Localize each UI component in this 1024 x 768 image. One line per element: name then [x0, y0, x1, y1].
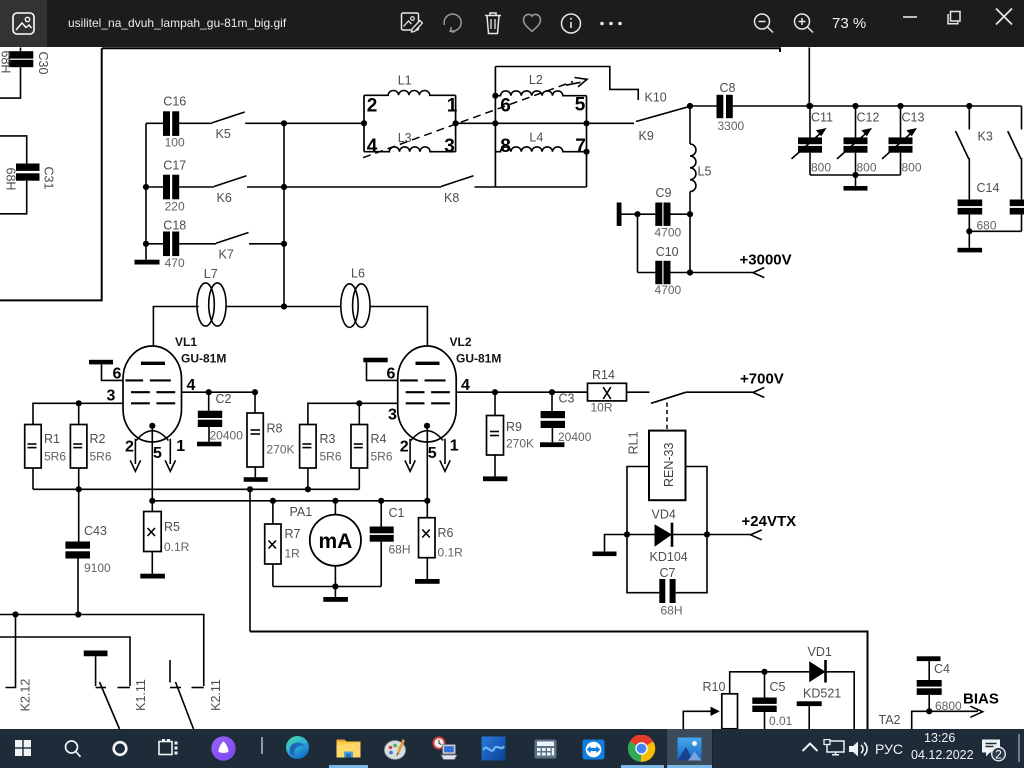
node rail center: [852, 172, 858, 178]
svg-text:C2: C2: [216, 392, 232, 406]
VL2 anode bar: [416, 362, 440, 365]
svg-text:4: 4: [367, 136, 378, 157]
svg-text:270K: 270K: [267, 443, 295, 457]
svg-text:5R6: 5R6: [90, 450, 112, 464]
switch K5: [212, 112, 245, 141]
svg-text:VD4: VD4: [652, 508, 676, 522]
VL1 heater arrow pin 2: [125, 439, 141, 472]
node C10 right: [687, 269, 693, 275]
svg-text:C7: C7: [660, 566, 676, 580]
resistor R2: [70, 403, 111, 489]
svg-text:C43: C43: [84, 524, 107, 538]
VL1 pin 4 wire (screen grid): [181, 377, 255, 394]
capacitor C7: [659, 566, 682, 618]
svg-text:C12: C12: [857, 111, 880, 125]
svg-text:100: 100: [165, 136, 185, 150]
node R9 junction: [492, 389, 498, 395]
svg-text:GU-81M: GU-81M: [456, 352, 501, 366]
pin 6 of L2 box: [500, 96, 511, 117]
variable capacitor C12: [837, 106, 879, 175]
terminal bar under VD1: [797, 701, 822, 729]
diode VD4 KD104: [627, 508, 707, 565]
svg-text:C30: C30: [36, 52, 50, 75]
node R4 top junction: [356, 400, 362, 406]
svg-text:K7: K7: [219, 248, 234, 262]
svg-text:20400: 20400: [210, 429, 244, 443]
wire y=637 to K1.11: [0, 637, 130, 686]
svg-text:3300: 3300: [718, 119, 745, 133]
svg-text:REN-33: REN-33: [662, 443, 676, 488]
capacitor C2: [198, 392, 243, 443]
ground under R9: [483, 455, 507, 481]
svg-text:+3000V: +3000V: [740, 252, 792, 269]
node C9 right / L5 bottom: [687, 211, 693, 217]
svg-text:C13: C13: [902, 111, 925, 125]
node rail R3: [305, 486, 311, 492]
inductor box L1/L3: [364, 91, 456, 152]
switch K9: [636, 106, 690, 143]
relay contact K1.11: [84, 651, 148, 730]
resistor R3: [300, 425, 342, 490]
svg-text:10R: 10R: [591, 401, 613, 415]
relay contact K2.12: [6, 615, 33, 712]
svg-text:C9: C9: [656, 186, 672, 200]
VL1 heater arrow pin 1: [165, 438, 185, 471]
node L2 box left mid: [492, 120, 498, 126]
svg-text:6: 6: [113, 366, 122, 383]
resistor R4: [351, 403, 393, 489]
R10 wiper arrow: [711, 707, 720, 716]
pin 7 of L2 box: [575, 136, 586, 157]
node C4 bottom / BIAS wire: [926, 708, 932, 714]
svg-text:VD1: VD1: [808, 645, 832, 659]
capacitor C18: [146, 219, 186, 271]
svg-text:K10: K10: [645, 91, 667, 105]
wire R14 to switch: [627, 391, 650, 393]
node bus285 K6 row: [281, 184, 287, 190]
inductor box L2/L4: [495, 67, 586, 188]
VL2 pin 6 terminal: [363, 358, 398, 383]
variable capacitor C13: [882, 106, 924, 175]
svg-text:C1: C1: [389, 506, 405, 520]
ground left of VD4: [593, 535, 628, 557]
svg-text:20400: 20400: [558, 430, 592, 444]
wire L5/C9 node down to C10 node: [689, 214, 691, 272]
svg-text:C5: C5: [770, 680, 786, 694]
VL2 grid 2 dashes: [406, 391, 450, 393]
svg-text:R2: R2: [90, 432, 106, 446]
svg-text:2: 2: [400, 439, 409, 456]
ground under PA1: [323, 587, 348, 602]
VL1 anode bar: [141, 362, 165, 365]
wire VD1 down right: [826, 672, 855, 729]
wire C8 to HV bus: [733, 105, 1022, 107]
svg-text:PA1: PA1: [290, 505, 313, 519]
ground under C2: [197, 427, 221, 446]
pin 3 of L1 box: [444, 136, 455, 157]
node junction C17 bus: [143, 184, 149, 190]
vertical bus wire x=146 (input cap bank): [145, 123, 147, 244]
capacitor C4 with top terminal: [917, 656, 962, 713]
svg-text:R4: R4: [371, 432, 387, 446]
node HV bus top feed: [806, 103, 812, 109]
svg-text:4700: 4700: [655, 283, 682, 297]
svg-text:68H: 68H: [389, 543, 411, 557]
VL2 cathode lead down: [426, 426, 428, 501]
switch K7: [216, 233, 249, 262]
wire L7 to bus285: [226, 306, 284, 308]
svg-text:RL1: RL1: [626, 431, 640, 454]
svg-text:GU-81M: GU-81M: [181, 352, 226, 366]
VL1 cathode dome: [136, 431, 168, 441]
resistor R9: [487, 392, 535, 455]
node rail R2: [76, 486, 82, 492]
VL1 pin 3 wire (control grid): [33, 388, 123, 425]
VL1 pin 5 label: [153, 445, 162, 462]
wire to R10 wiper: [683, 711, 711, 729]
capacitor C5: [752, 672, 792, 729]
wire C18 to K7: [179, 243, 216, 245]
svg-text:3: 3: [107, 388, 116, 405]
VL1 label: [175, 335, 226, 366]
svg-text:L1: L1: [398, 74, 412, 88]
node VD4 left: [624, 531, 630, 537]
cathode rail y=501: [152, 500, 427, 502]
svg-text:L4: L4: [529, 131, 543, 145]
pin 8 of L2 box: [500, 136, 511, 157]
VL2 grid 3 dashes: [406, 402, 450, 404]
wire K5 to bus: [245, 122, 284, 124]
node L2 box right mid: [583, 120, 589, 126]
wire K6 to K8: [247, 186, 441, 188]
svg-text:3: 3: [444, 136, 455, 157]
svg-text:K3: K3: [978, 130, 993, 144]
wire C16 to K5: [179, 122, 212, 124]
node bus285 anode row: [281, 303, 287, 309]
svg-text:+700V: +700V: [740, 371, 784, 388]
node bias rail K2.12: [12, 611, 18, 617]
svg-text:5: 5: [153, 445, 162, 462]
ammeter PA1: [290, 501, 362, 587]
VL2 heater arrow pin 2: [400, 439, 416, 472]
node VD4 right: [704, 531, 710, 537]
svg-text:KD521: KD521: [803, 687, 841, 701]
svg-text:9100: 9100: [84, 561, 111, 575]
svg-text:C14: C14: [977, 181, 1000, 195]
node L1 box right: [453, 120, 459, 126]
lower sub-circuit box frame: [250, 632, 868, 730]
svg-text:5R6: 5R6: [320, 450, 342, 464]
wire C17 to K6: [179, 186, 214, 188]
ground under C3: [540, 428, 564, 447]
svg-text:C8: C8: [720, 81, 736, 95]
ground under C11-C13 rail: [844, 175, 868, 191]
node cathode rail PA1: [332, 498, 338, 504]
node C3 junction: [549, 389, 555, 395]
ground under R8: [244, 467, 268, 482]
svg-text:L2: L2: [529, 73, 543, 87]
RL1 label: [626, 431, 640, 454]
inductor L6: [341, 267, 370, 328]
inductor L7: [197, 267, 226, 326]
svg-text:C4: C4: [934, 662, 950, 676]
svg-text:C18: C18: [163, 219, 186, 233]
svg-text:K6: K6: [217, 191, 232, 205]
resistor R7: [265, 501, 301, 587]
svg-text:4: 4: [461, 377, 470, 394]
wire K8 to L2 box: [475, 186, 496, 188]
ground under C14: [958, 231, 983, 252]
node C11 bus: [807, 103, 813, 109]
capacitor C1: [370, 501, 411, 587]
svg-text:VL2: VL2: [450, 335, 472, 349]
bottom rail of C11-C13: [810, 174, 901, 176]
node PA1 bottom: [332, 583, 338, 589]
capacitor C3: [541, 392, 592, 445]
wire junction to C8: [690, 105, 717, 107]
RL1 loop wiring: [627, 467, 707, 593]
capacitor C10: [655, 245, 691, 297]
switch K8: [441, 176, 474, 205]
svg-text:4: 4: [187, 377, 196, 394]
node C9 left junction: [634, 211, 640, 217]
svg-text:5: 5: [428, 445, 437, 462]
VL2 cathode dome: [411, 431, 443, 441]
svg-text:4700: 4700: [655, 226, 682, 240]
svg-text:L5: L5: [698, 165, 712, 179]
pin 1 of L1 box: [447, 96, 458, 117]
svg-text:270K: 270K: [506, 437, 534, 451]
dashed gang line with arrow (variable inductor): [363, 78, 587, 158]
svg-text:8: 8: [500, 136, 511, 157]
VL1 pin 6 terminal: [89, 360, 124, 383]
svg-text:800: 800: [902, 161, 922, 175]
switch K3 (second contact): [1008, 106, 1022, 159]
svg-text:R14: R14: [592, 368, 615, 382]
svg-text:C17: C17: [163, 159, 186, 173]
svg-text:R3: R3: [320, 432, 336, 446]
svg-text:5R6: 5R6: [44, 450, 66, 464]
potentiometer R10: [703, 672, 765, 729]
wire pin5 to K9: [587, 122, 635, 124]
svg-text:800: 800: [857, 161, 877, 175]
svg-text:mA: mA: [318, 530, 352, 553]
svg-text:0.01: 0.01: [769, 714, 793, 728]
wire bus285 to L1 box: [284, 122, 364, 124]
bias rail wire y=614.5: [0, 615, 204, 687]
node C5 top: [761, 669, 767, 675]
PA1 bottom wire: [273, 586, 381, 588]
feedthrough terminal left of C9: [617, 203, 638, 226]
node bus285 K7 row: [281, 241, 287, 247]
wire C5 to VD1: [765, 671, 810, 673]
variable capacitor C11: [792, 106, 834, 175]
schematic border frame top line: [102, 48, 780, 52]
node K9 / C8 junction: [687, 103, 693, 109]
relay contact K2.11: [170, 660, 223, 729]
wire from top edge down to HV bus: [808, 48, 810, 107]
node cathode rail R6: [424, 498, 430, 504]
node cathode rail C1: [378, 498, 384, 504]
VL2 pin 4 wire (screen grid): [456, 377, 588, 394]
capacitor C31 (left edge fragment): [0, 136, 56, 214]
node C13 bus: [897, 103, 903, 109]
VL2 grid 1 dashes: [400, 379, 445, 381]
wire L1 box to L2 box: [456, 122, 496, 124]
svg-text:R9: R9: [506, 420, 522, 434]
vacuum tube VL2 GU-81M envelope: [398, 346, 457, 442]
svg-text:5R6: 5R6: [371, 450, 393, 464]
switch K10 label: [645, 91, 667, 105]
svg-text:K2.11: K2.11: [209, 679, 223, 711]
node VL1 cathode: [149, 423, 155, 429]
svg-text:5: 5: [575, 95, 586, 116]
ground under C18 bus: [135, 244, 160, 265]
svg-text:KD104: KD104: [650, 550, 688, 564]
transformer TA2 label: [879, 713, 901, 727]
svg-text:6: 6: [500, 96, 511, 117]
wire L7 to VL1 anode: [153, 307, 198, 362]
capacitor C30 (left edge fragment): [0, 48, 50, 99]
svg-text:800: 800: [811, 161, 831, 175]
+3000V feed arrow: [690, 252, 792, 278]
inductor label L4: [529, 131, 543, 145]
svg-text:C31: C31: [42, 167, 56, 190]
svg-text:2: 2: [125, 439, 134, 456]
+24VTX feed arrow: [707, 513, 796, 540]
svg-text:220: 220: [165, 200, 185, 214]
node L1 box left: [361, 120, 367, 126]
inductor label L3: [398, 131, 412, 145]
ground under R5: [140, 552, 165, 579]
relay switch RL1.1 blade: [651, 392, 686, 403]
node cathode rail R5: [149, 498, 155, 504]
node bias rail C43: [75, 611, 81, 617]
schematic border frame left side: [0, 48, 102, 300]
resistor R8: [247, 392, 295, 467]
VL2 heater arrow pin 1: [440, 438, 459, 472]
svg-text:470: 470: [165, 256, 185, 270]
svg-text:6: 6: [387, 366, 396, 383]
svg-text:0.1R: 0.1R: [164, 540, 190, 554]
svg-text:R1: R1: [44, 432, 60, 446]
VL2 pin 5 label: [428, 445, 437, 462]
svg-text:K5: K5: [216, 127, 231, 141]
node R2 top junction: [76, 400, 82, 406]
VL1 cathode lead down: [151, 426, 153, 501]
vacuum tube VL1 GU-81M envelope: [123, 346, 182, 442]
svg-text:C16: C16: [163, 95, 186, 109]
vertical bus wire x=284: [283, 123, 285, 306]
svg-text:68H: 68H: [4, 168, 18, 191]
svg-text:K1.11: K1.11: [134, 679, 148, 711]
pin 2 of L1 box: [367, 96, 378, 117]
svg-text:2: 2: [367, 96, 378, 117]
node K3 bus: [966, 103, 972, 109]
node R8 junction: [252, 389, 258, 395]
capacitor C43: [65, 489, 111, 614]
svg-text:VL1: VL1: [175, 335, 197, 349]
+700V feed arrow: [686, 371, 784, 398]
capacitor C16: [146, 95, 186, 150]
wire C14 bottom to C15 bottom: [969, 230, 1021, 232]
svg-text:K9: K9: [639, 129, 654, 143]
ground under R6: [415, 558, 440, 584]
resistor R1: [25, 425, 67, 490]
VL1 grid 3 dashes: [131, 402, 175, 404]
svg-text:R6: R6: [438, 526, 454, 540]
pin 5 of L2 box: [575, 95, 586, 116]
node junction C18 bus: [143, 241, 149, 247]
svg-text:C3: C3: [559, 392, 575, 406]
node VL2 cathode: [424, 423, 430, 429]
svg-text:0.1R: 0.1R: [438, 546, 464, 560]
svg-text:K8: K8: [444, 191, 459, 205]
resistor R5: [144, 501, 190, 554]
node C14 bottom: [966, 228, 972, 234]
VL2 label: [450, 335, 502, 366]
wire K10 step from box top: [495, 67, 638, 101]
inductor L5: [690, 106, 711, 214]
svg-text:R7: R7: [285, 527, 301, 541]
svg-text:1: 1: [450, 438, 459, 455]
dashed relay actuator link: [666, 403, 668, 431]
svg-text:L6: L6: [351, 267, 365, 281]
svg-text:2: 2: [995, 747, 1002, 761]
svg-text:L7: L7: [204, 267, 218, 281]
capacitor C15 (clipped at screen edge): [1010, 158, 1024, 231]
svg-text:+24VTX: +24VTX: [742, 513, 797, 530]
diode VD1 KD521: [803, 645, 841, 701]
svg-text:TA2: TA2: [879, 713, 901, 727]
svg-text:C11: C11: [811, 111, 833, 125]
node rail drop x=250: [247, 486, 253, 492]
switch K6: [214, 176, 247, 205]
pin 4 of L1 box: [367, 136, 378, 157]
svg-text:K2.12: K2.12: [19, 679, 33, 712]
relay coil RL1: [649, 431, 686, 501]
capacitor C14: [958, 158, 1000, 233]
VL1 grid 1 dashes: [125, 379, 170, 381]
wire rail drop to lower box: [249, 489, 251, 631]
svg-text:68H: 68H: [661, 604, 683, 618]
svg-text:68H: 68H: [0, 51, 13, 74]
svg-text:R8: R8: [267, 422, 283, 436]
grid bias rail y=489: [33, 488, 359, 490]
node C2 junction: [206, 389, 212, 395]
BIAS output arrow: [912, 691, 999, 730]
node pin7 right edge: [583, 149, 589, 155]
capacitor C9: [638, 186, 691, 240]
svg-text:R10: R10: [703, 680, 726, 694]
resistor R14: [552, 368, 627, 415]
svg-text:BIAS: BIAS: [963, 691, 999, 708]
node C12 bus: [852, 103, 858, 109]
resistor R6: [419, 501, 464, 560]
switch K3 (first contact): [956, 106, 993, 159]
svg-text:1: 1: [176, 438, 185, 455]
inductor label L1: [398, 74, 412, 88]
capacitor C17: [146, 159, 186, 214]
svg-text:R5: R5: [164, 520, 180, 534]
capacitor C8: [717, 81, 745, 133]
VL1 grid 2 dashes: [131, 391, 175, 393]
wire C9 junction down to C10: [638, 214, 656, 272]
wire L6 to VL2 anode: [370, 307, 427, 362]
svg-text:3: 3: [388, 407, 397, 424]
svg-text:1: 1: [447, 96, 458, 117]
inductor label L2: [529, 73, 543, 87]
